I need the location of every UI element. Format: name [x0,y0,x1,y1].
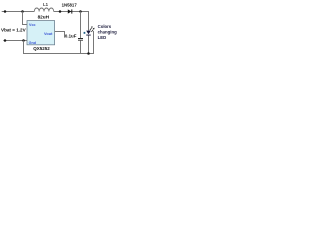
diode D1 1N5817 [68,9,72,13]
wire middle rail to Gnd pin [3,40,27,42]
svg-text:Vcc: Vcc [29,23,36,27]
wire bottom rail [24,31,94,54]
LED emission arrow 2 [91,30,93,32]
node teal mark left of LED [84,32,86,34]
svg-text:1N5817: 1N5817 [62,3,78,8]
svg-text:Vbat = 1.2V: Vbat = 1.2V [1,28,27,33]
node junction dot capacitor top [79,10,82,13]
node junction dot left battery + [4,10,7,13]
op-amp U1 QX5252 box [27,21,55,45]
svg-text:Vout: Vout [44,31,53,36]
capacitor C1 bottom lead [80,41,82,54]
capacitor C1 plates [78,39,83,41]
svg-text:QX5252: QX5252 [33,46,50,51]
svg-text:Gnd: Gnd [29,41,37,45]
svg-text:changing: changing [98,30,117,35]
wire top rail right of inductor [54,12,89,31]
svg-text:Colors: Colors [98,24,112,29]
LED emission arrow 1 [90,28,92,30]
capacitor C1 top lead [80,12,82,39]
svg-text:82uH: 82uH [38,14,50,19]
svg-text:LED: LED [98,35,107,40]
node junction dot Vcc tap [21,10,24,13]
LED cathode lead [88,36,90,54]
LED D2 triangle [86,31,91,35]
node junction dot gnd drop [22,39,25,42]
wire top rail [2,11,35,13]
LED D2 cathode bar [86,34,91,37]
node junction dot inductor-diode [59,10,62,13]
node junction dot left battery - [4,39,7,42]
svg-text:L1: L1 [43,2,49,7]
wire Vout pin stub [55,32,65,38]
inductor L1 [34,8,53,12]
svg-text:0.1uF: 0.1uF [65,34,77,39]
wire Vcc drop from top rail into box [23,12,28,25]
node junction dot LED-bottom rail [87,52,90,55]
